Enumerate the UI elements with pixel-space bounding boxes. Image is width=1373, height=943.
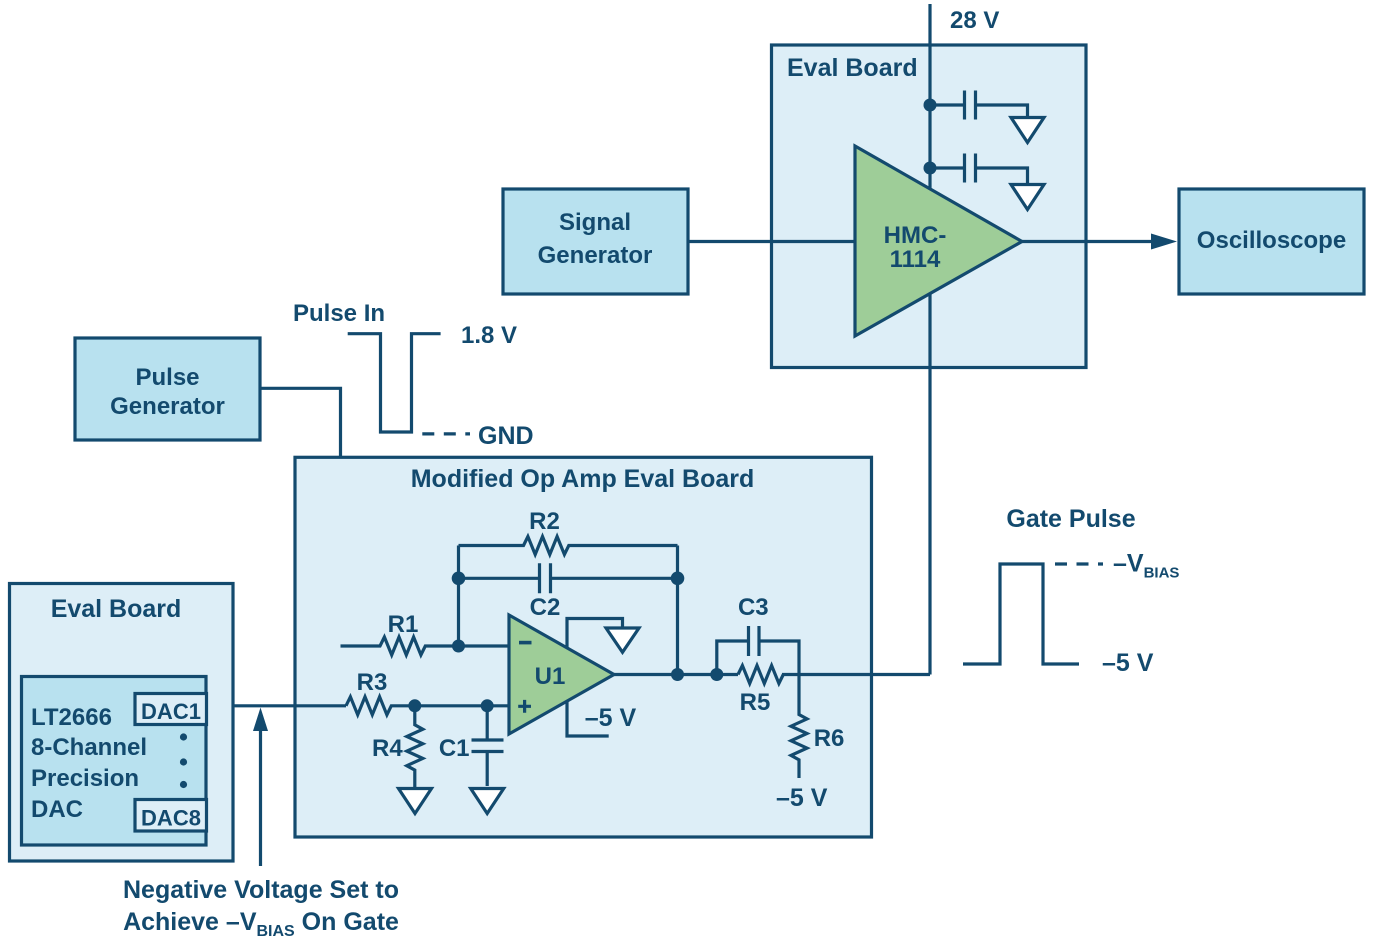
wire amplifier output to oscilloscope: [1022, 240, 1152, 243]
capacitor C2: [540, 563, 551, 593]
eval board (HMC-1114) box: [772, 45, 1087, 368]
op-amp U1: [509, 615, 614, 734]
svg-text:1.8 V: 1.8 V: [461, 322, 517, 349]
resistor R1: [341, 637, 510, 655]
svg-text:–5 V: –5 V: [776, 784, 828, 812]
svg-text:DAC1: DAC1: [141, 699, 201, 724]
node dot C2 right: [671, 572, 685, 586]
svg-text:R1: R1: [388, 611, 419, 638]
svg-text:–5 V: –5 V: [585, 704, 637, 732]
svg-text:GND: GND: [478, 422, 534, 450]
resistor R3: [346, 697, 509, 715]
ground symbol 2: [1011, 185, 1044, 210]
wire C3 branch: [717, 641, 799, 675]
resistor R2: [459, 537, 678, 555]
svg-text:Negative Voltage Set to: Negative Voltage Set to: [123, 876, 399, 904]
svg-text:R2: R2: [529, 508, 560, 535]
wire capacitor 1 to ground: [977, 105, 1028, 117]
ground symbol op-amp supply: [606, 628, 639, 652]
dashed GND level line: [422, 432, 470, 435]
capacitor C1: [472, 740, 504, 752]
svg-text:U1: U1: [535, 663, 566, 690]
svg-text:Eval Board: Eval Board: [51, 595, 182, 623]
svg-text:28 V: 28 V: [950, 7, 999, 34]
pulse-in waveform: [348, 334, 441, 432]
resistor R6: [791, 675, 807, 779]
wire C1 top: [486, 706, 489, 739]
ground symbol R4: [399, 789, 432, 814]
wire feedback right vertical: [676, 546, 679, 675]
node dot C1 junction: [481, 699, 494, 712]
signal generator box: [503, 189, 688, 294]
LT2666 DAC inner box: [22, 677, 207, 846]
pulse generator box: [75, 338, 260, 440]
wire to bypass capacitor 1: [930, 103, 963, 106]
svg-text:–5 V: –5 V: [1102, 649, 1154, 677]
svg-text:8-Channel: 8-Channel: [31, 734, 147, 761]
resistor R4: [407, 706, 423, 788]
svg-text:Eval Board: Eval Board: [787, 54, 918, 82]
node junction dot 2 on 28V line: [924, 162, 937, 175]
arrowhead into oscilloscope: [1151, 234, 1177, 250]
wire to bypass capacitor 2: [930, 166, 963, 169]
svg-text:DAC: DAC: [31, 796, 83, 823]
svg-text:Signal: Signal: [559, 209, 631, 236]
wire pulse generator to R1: [260, 388, 341, 646]
svg-text:C3: C3: [738, 594, 769, 621]
DAC1 output box: [135, 694, 207, 725]
svg-text:Gate Pulse: Gate Pulse: [1006, 505, 1135, 533]
svg-text:R4: R4: [372, 735, 403, 762]
ground symbol C1: [471, 789, 504, 814]
wire C1 bottom: [486, 753, 489, 786]
capacitor C3: [749, 626, 760, 656]
wire feedback left vertical: [457, 546, 460, 647]
wire signal generator to amplifier input: [688, 240, 856, 243]
ground symbol 1: [1011, 118, 1044, 143]
svg-text:HMC-: HMC-: [884, 222, 947, 249]
svg-text:Oscilloscope: Oscilloscope: [1197, 227, 1346, 254]
svg-text:1114: 1114: [890, 246, 941, 273]
dashed -VBIAS level line: [1055, 562, 1103, 565]
svg-text:LT2666: LT2666: [31, 704, 112, 731]
arrow negative voltage annotation: [259, 730, 262, 866]
svg-text:Pulse: Pulse: [135, 364, 199, 391]
svg-text:R3: R3: [357, 669, 388, 696]
svg-text:C2: C2: [530, 594, 561, 621]
node dot output feedback: [671, 668, 684, 681]
op-amp noninverting pin mark: [518, 700, 531, 713]
node dot inverting input: [452, 640, 465, 653]
op-amp U1 negative supply wire: [567, 701, 609, 736]
svg-text:Precision: Precision: [31, 765, 139, 792]
capacitor bypass 2: [965, 154, 976, 183]
op-amp inverting pin mark: [519, 641, 532, 645]
svg-text:Modified Op Amp Eval Board: Modified Op Amp Eval Board: [411, 465, 755, 493]
oscilloscope box: [1179, 189, 1364, 294]
gate pulse waveform: [963, 564, 1079, 664]
wire DAC output to op-amp noninverting input: [207, 704, 347, 707]
svg-text:C1: C1: [439, 735, 470, 762]
svg-text:Generator: Generator: [110, 393, 225, 420]
DAC8 output box: [135, 800, 207, 832]
node dot R4 junction: [408, 699, 421, 712]
capacitor bypass 1: [965, 91, 976, 120]
resistor R5: [738, 666, 783, 684]
modified op amp eval board box: [295, 457, 872, 837]
node dot C2 left: [452, 572, 466, 586]
wire 28V supply vertical (net 28V / gate line): [928, 4, 931, 675]
svg-text:R6: R6: [814, 725, 845, 752]
amplifier HMC-1114: [855, 146, 1022, 336]
node dot C3 left: [710, 668, 723, 681]
svg-text:DAC8: DAC8: [141, 806, 201, 831]
wire C2 row: [459, 577, 678, 580]
svg-text:Generator: Generator: [538, 242, 653, 269]
svg-text:R5: R5: [740, 689, 771, 716]
wire op-amp output: [614, 673, 930, 676]
op-amp U1 positive supply wire: [567, 619, 623, 649]
node junction dot 1 on 28V line: [924, 99, 937, 112]
eval board (DAC) box: [10, 584, 234, 862]
svg-text:Pulse In: Pulse In: [293, 300, 385, 327]
wire capacitor 2 to ground: [977, 168, 1028, 184]
DAC channel ellipsis dots: [180, 733, 187, 740]
